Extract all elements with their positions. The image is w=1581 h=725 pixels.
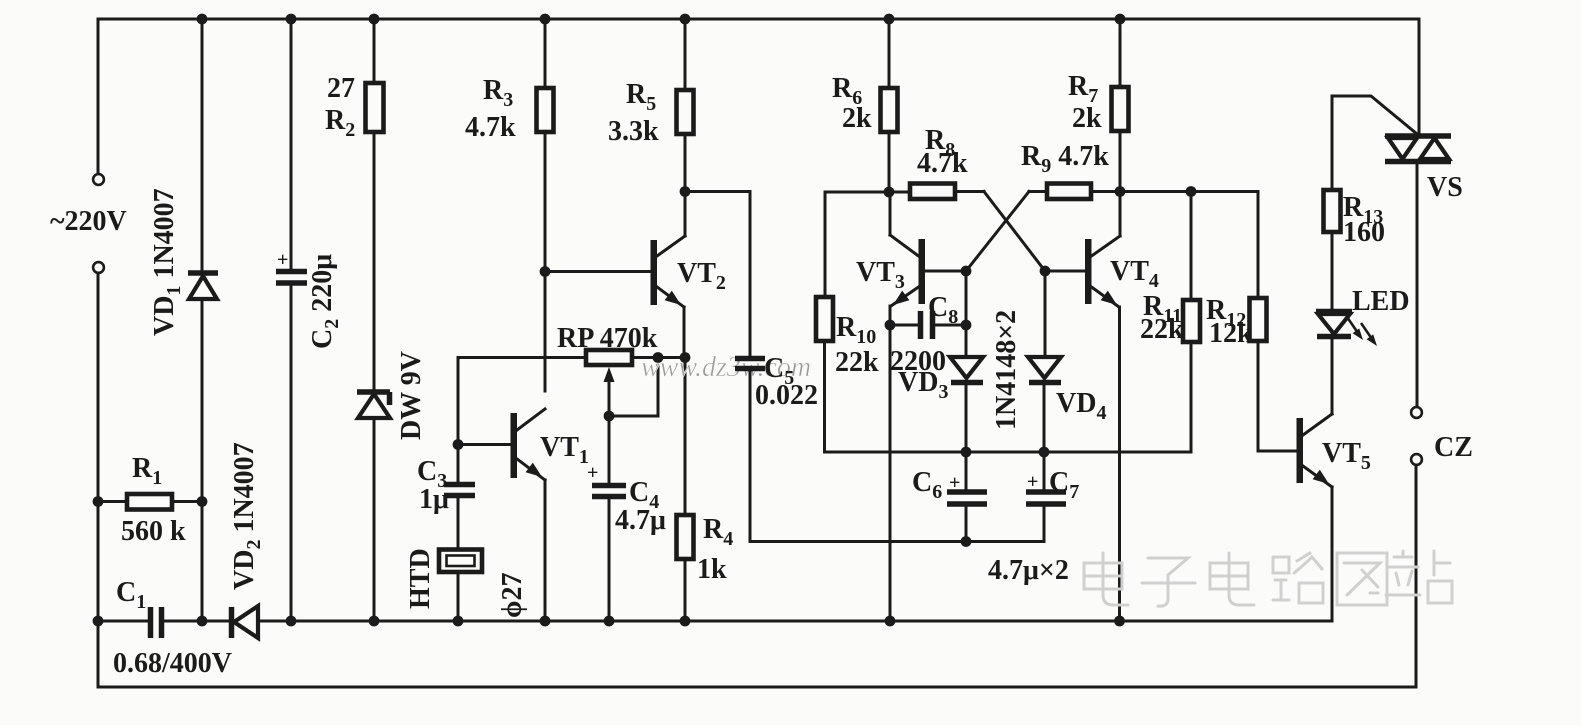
node C2 ground [286,616,297,627]
svg-text:VD4: VD4 [1056,388,1106,424]
watermark char tu [1337,553,1387,605]
capacitor C6 [965,452,968,490]
resistor R4 [677,515,694,559]
LED arrow 1 [1347,317,1358,333]
diode VD1 [188,270,218,276]
svg-text:C6: C6 [912,467,942,503]
LED diode [1316,309,1352,315]
resistor R5 [677,90,694,134]
LED arrow 2 [1361,323,1372,339]
wire VT3 collector up [889,192,892,235]
wire R7 column [1119,19,1122,192]
wire RP right [632,356,685,359]
node R3 VT2 base [540,266,551,277]
resistor R9 [1047,184,1091,200]
svg-text:0.022: 0.022 [755,380,818,411]
svg-text:VS: VS [1427,172,1463,203]
wire VT4 base column down [1044,271,1047,355]
svg-text:2k: 2k [1072,103,1102,134]
wire cross R8 to VT4 base [984,192,1045,272]
node VT3 base [961,266,972,277]
node RP wiper C4 [604,411,615,422]
node C8 right [961,320,972,331]
svg-text:560 k: 560 k [121,516,186,547]
node R11 top [1186,186,1197,197]
wire C3 HTD column [457,358,460,622]
wire R3 column [544,19,547,391]
wire VT5 emitter down [1331,487,1334,621]
svg-text:VT2: VT2 [677,258,726,294]
resistor R3 [537,88,554,132]
node C4 ground [604,616,615,627]
node R7 top rail [1115,14,1126,25]
node VT3 emitter ground [885,616,896,627]
wire left rail lower [97,273,100,687]
wire top rail [98,18,1419,21]
wire top rail to VS [1418,19,1421,134]
resistor R6 [881,88,898,132]
wire R2 DW column [373,19,376,621]
svg-text:R3: R3 [483,75,513,111]
wire VS to CZ [1416,164,1419,406]
node VT2 emitter RP [680,352,691,363]
node R4 ground [680,616,691,627]
svg-text:R4: R4 [703,514,733,550]
svg-text:C7: C7 [1049,467,1079,503]
watermark char dian2 [1210,553,1254,605]
node R7 VT4 collector [1115,186,1126,197]
wire C2 column [290,19,293,621]
resistor R10 [816,297,833,341]
capacitor C5 [735,359,765,369]
svg-text:C8: C8 [928,292,958,328]
svg-text:VT1: VT1 [540,432,589,468]
watermark char lu [1273,553,1323,603]
svg-text:+: + [277,249,288,271]
capacitor C4 [608,416,611,484]
node VD3 bottom [961,447,972,458]
node VD1 ground [197,616,208,627]
AC input terminal upper [93,174,104,185]
transducer HTD [439,550,482,573]
svg-text:CZ: CZ [1434,432,1473,463]
svg-text:1k: 1k [697,554,727,585]
wire R6 column [888,19,891,192]
wire R8 to cross [955,190,984,193]
diode VD4 [1028,357,1061,378]
wire bottom rail [98,686,1416,689]
resistor R12 [1250,298,1267,341]
svg-text:4.7k: 4.7k [917,148,968,179]
resistor R11 [1190,192,1193,301]
wire R3 node to VT2 base [545,270,650,273]
svg-text:2k: 2k [842,103,872,134]
node VT3 emitter C8 [885,320,896,331]
svg-text:VT5: VT5 [1322,438,1371,474]
node R1 right [197,496,208,507]
wire C1 to VD2 [164,620,230,623]
wire R5 column [684,19,687,236]
wire VD1 column [201,19,204,621]
wire ground rail segment left of C1 [98,620,147,623]
node C6 bottom [961,536,972,547]
node R1 left [93,496,104,507]
resistor R8 [910,184,955,200]
wire VT2 collector to C5 [685,192,750,358]
watermark char zhan [1386,551,1452,603]
svg-text:R2: R2 [325,105,355,141]
svg-text:R10: R10 [836,312,876,348]
potentiometer RP [586,350,632,365]
node C2 top rail [286,14,297,25]
svg-text:160: 160 [1343,217,1385,248]
node HTD ground [453,616,464,627]
wire emitter node to R4 [684,358,687,516]
svg-text:RP 470k: RP 470k [557,323,658,354]
svg-text:22k: 22k [835,347,879,378]
svg-text:C1: C1 [116,577,146,613]
svg-text:4.7μ×2: 4.7μ×2 [988,555,1069,586]
node RP right loop [653,352,664,363]
diode VD2 [229,607,235,638]
svg-text:1μ: 1μ [419,484,449,515]
node R3 top rail [540,14,551,25]
svg-text:VD2 1N4007: VD2 1N4007 [229,442,265,590]
resistor R2 [366,83,384,132]
wire R10 top segment [825,192,910,297]
socket CZ terminal lower [1411,454,1422,465]
svg-text:R5: R5 [626,79,656,115]
wire RP wiper loop [609,358,658,417]
svg-text:HTD: HTD [405,548,436,609]
svg-text:C2 220μ: C2 220μ [307,254,343,349]
svg-text:12k: 12k [1209,318,1253,349]
capacitor C7 [1043,452,1046,490]
transistor VT4 [1085,239,1092,304]
node R6 top rail [884,14,895,25]
node R5 top rail [680,14,691,25]
wire VD line horizontal [825,451,1191,454]
resistor R7 [1112,87,1129,131]
svg-text:VT4: VT4 [1110,256,1159,292]
node VD4 bottom [1039,447,1050,458]
node VT1 base [453,439,464,450]
transistor VT1 [511,413,518,478]
transistor VT5 [1297,418,1304,483]
wire left rail upper [97,19,100,174]
wire VT5 collector up to LED [1331,339,1334,414]
svg-text:R7: R7 [1068,71,1098,107]
wire CZ to bottom rail [1415,465,1418,687]
svg-text:22k: 22k [1140,314,1184,345]
svg-text:27: 27 [327,73,355,104]
capacitor C1 [151,607,162,638]
svg-text:ϕ27: ϕ27 [497,573,528,618]
triac VS [1385,136,1451,162]
capacitor C8 [890,324,918,327]
svg-text:LED: LED [1352,286,1410,317]
node VT1 emitter ground [540,616,551,627]
svg-text:3.3k: 3.3k [608,116,659,147]
svg-text:4.7k: 4.7k [465,112,516,143]
wire VT4 collector up [1119,192,1122,237]
wire VT1 emitter to ground [544,480,547,621]
resistor R1 [98,500,202,503]
wire VS gate [1332,96,1417,134]
svg-text:4.7μ: 4.7μ [615,505,666,536]
svg-text:VT3: VT3 [856,257,905,293]
svg-text:+: + [1027,471,1038,493]
capacitor C2 [276,272,307,284]
node R2 top rail [369,14,380,25]
wire R9 right to R12 [1091,192,1258,299]
svg-text:0.68/400V: 0.68/400V [113,648,232,679]
wire VT3 base column down [965,271,968,355]
svg-text:~220V: ~220V [50,206,127,237]
wire VT4 emitter down [1118,307,1121,621]
wire R9 left [1029,190,1047,193]
node DW ground [369,616,380,627]
diode VD3 [950,357,983,378]
transistor VT3 [919,239,926,304]
node VT4 base [1040,266,1051,277]
wire VT3 emitter down [889,306,892,621]
transistor VT2 [651,240,658,305]
wire ground rail main [258,620,1332,623]
svg-text:DW 9V: DW 9V [396,351,427,440]
node C1 left [93,616,104,627]
wire RP line left [458,356,586,359]
zener DW 9V [357,392,390,405]
svg-text:VD1 1N4007: VD1 1N4007 [149,188,185,336]
watermark char zi [1142,558,1195,606]
svg-text:R9 4.7k: R9 4.7k [1021,141,1109,177]
svg-text:R1: R1 [132,453,162,489]
wire cross R9 to VT3 base [966,192,1029,272]
node VT2 collector [680,186,691,197]
capacitor C3 [444,485,475,496]
wire C5 C6 C7 bottom line [750,540,1043,543]
AC input terminal lower [93,262,104,273]
watermark char dian1 [1084,553,1128,605]
svg-text:+: + [587,462,598,484]
socket CZ terminal upper [1411,407,1422,418]
node VT4 emitter ground [1114,616,1125,627]
node VD1 top rail [197,14,208,25]
node R6 R8 VT3 collector [884,187,895,198]
wire R10 bottom column [823,341,826,452]
svg-text:+: + [949,472,960,494]
wire VT2 emitter down [683,307,686,358]
resistor R13 [1331,96,1334,190]
svg-text:1N4148×2: 1N4148×2 [991,310,1022,430]
